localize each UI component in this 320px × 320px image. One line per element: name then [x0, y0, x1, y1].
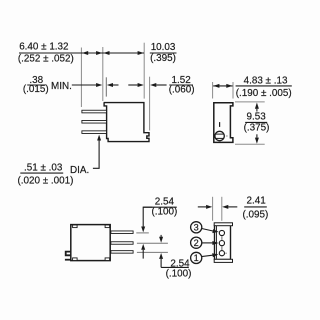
leader terminal 2: [202, 242, 213, 244]
extension line 2.41 left: [212, 197, 214, 221]
svg-text:1: 1: [194, 253, 199, 263]
arrowhead .38 right: [107, 83, 113, 87]
svg-text:(.095): (.095): [243, 209, 269, 220]
pin 3 side view: [82, 131, 107, 134]
shaft 1.52 right: [156, 84, 166, 86]
fraction bar 6.40: [19, 52, 74, 54]
arrowhead 10.03 right: [138, 51, 144, 55]
leader terminal 1: [202, 255, 213, 256]
arrow 2.54 bottom up: [159, 253, 163, 259]
arrowhead 6.40 right: [96, 51, 102, 55]
centerline pin 1: [136, 232, 149, 234]
extension line 4.83 left: [212, 82, 214, 99]
body front view (top-right): [214, 103, 233, 143]
svg-text:2: 2: [194, 238, 199, 248]
svg-text:(.375): (.375): [244, 123, 270, 134]
leader .38 MIN: [72, 84, 97, 86]
arrow 9.53 up: [255, 103, 259, 109]
arrowhead 2.54 top down: [141, 227, 145, 233]
corner pad top-left: [73, 225, 78, 228]
extension tick main left face (.38): [105, 77, 107, 96]
arrowhead 10.03 left: [103, 51, 109, 55]
index mark: [219, 122, 221, 127]
hole link 1-2: [221, 236, 223, 240]
centerline pin 3: [137, 251, 168, 253]
leader .51 DIA arrow: [97, 135, 101, 141]
inner left edge line: [216, 226, 218, 259]
svg-text:(.395): (.395): [150, 53, 176, 64]
body top view (bottom-left): [71, 225, 110, 261]
svg-text:6.40 ± 1.32: 6.40 ± 1.32: [19, 42, 68, 53]
fraction bar 9.53: [245, 121, 267, 123]
leader 2.54 top: [143, 207, 152, 227]
arrowhead 2.54 top up: [141, 244, 145, 250]
extension line body left face: [102, 47, 104, 101]
svg-text:9.53: 9.53: [247, 111, 267, 122]
svg-text:(.020 ± .001): (.020 ± .001): [18, 175, 74, 186]
svg-text:10.03: 10.03: [151, 42, 176, 53]
svg-text:(.015): (.015): [23, 84, 49, 95]
svg-text:3: 3: [194, 223, 199, 233]
extension line standoff right face: [149, 77, 151, 131]
shaft 1.52 left: [128, 84, 138, 86]
pin 3 top view: [111, 251, 133, 254]
dimension 2.41 left arrow: [198, 206, 206, 208]
terminal circle 1: [191, 252, 202, 263]
svg-text:(.252 ± .052): (.252 ± .052): [18, 54, 74, 65]
hole 3 centerline tick: [225, 252, 227, 254]
arrow 9.53 down: [255, 138, 259, 144]
side standoff boss: [66, 252, 71, 256]
top cap: [214, 223, 232, 226]
dimension line 4.83: [213, 85, 232, 87]
extension line 9.53 bottom: [235, 143, 265, 145]
screw slot bottom: [216, 137, 224, 139]
screw slot top: [215, 133, 224, 135]
arrowhead .38 left: [96, 83, 102, 87]
arrowhead 6.40 left: [82, 51, 88, 55]
svg-text:4.83 ± .13: 4.83 ± .13: [244, 75, 288, 86]
terminal circle 3: [191, 222, 202, 233]
leader terminal 3: [202, 229, 213, 232]
extension line pin tips (6.40 left): [80, 48, 82, 108]
svg-text:(.060): (.060): [169, 84, 195, 95]
fraction bar 2.54 top: [143, 206, 177, 208]
extension line 9.53 top: [235, 101, 265, 103]
dimension line 6.40: [74, 52, 145, 54]
extension line 4.83 right: [232, 82, 234, 99]
extension line body right face: [143, 43, 145, 99]
pin 1 top view: [111, 231, 133, 234]
svg-text:DIA.: DIA.: [70, 165, 89, 176]
pin hole 1: [219, 230, 224, 235]
corner pad bottom-right: [105, 258, 110, 261]
fraction bar 1.52: [169, 84, 193, 86]
pin 2 top view: [111, 242, 133, 245]
pin hole 3: [219, 251, 224, 256]
svg-text:(.100): (.100): [166, 268, 192, 279]
arrowhead 4.83 right: [226, 84, 232, 88]
fraction bar 2.41: [244, 206, 267, 208]
shaft .38 right: [113, 84, 119, 86]
centerline pin 2: [137, 242, 168, 244]
screw centerline tick: [226, 135, 228, 137]
bottom cap: [214, 259, 232, 262]
arrowhead 4.83 left: [213, 84, 219, 88]
dimension 2.41 right arrow: [222, 205, 228, 209]
body end view (bottom-right) main: [215, 225, 231, 259]
bottom edge extension: [65, 259, 71, 261]
pin 2 side view: [82, 120, 107, 123]
body side view (top-left): [104, 103, 149, 142]
svg-text:(.100): (.100): [152, 207, 178, 218]
hole link 2-3: [221, 246, 223, 250]
arrowhead 1.52 right: [150, 83, 156, 87]
fraction bar 10.03: [150, 52, 177, 54]
svg-text:.51 ± .03: .51 ± .03: [24, 163, 63, 174]
arrowhead 1.52 left: [138, 83, 144, 87]
svg-text:MIN.: MIN.: [51, 81, 72, 92]
pin hole 2: [219, 241, 224, 246]
fraction bar 4.83: [236, 85, 292, 87]
fraction bar .38: [27, 84, 45, 86]
corner pad top-right: [105, 225, 110, 228]
fraction bar .51: [20, 172, 63, 174]
extension line 2.41 right: [221, 197, 223, 221]
arrow 2.54 bottom down: [160, 235, 162, 237]
terminal circle 2: [191, 237, 202, 248]
svg-text:(.190 ± .005): (.190 ± .005): [236, 88, 292, 99]
pin 1 side view: [82, 110, 107, 113]
fraction bar 2.54 bottom: [161, 266, 189, 268]
corner pad bottom-left: [73, 258, 78, 261]
adjustment screw: [215, 131, 224, 140]
svg-text:2.41: 2.41: [247, 195, 267, 206]
